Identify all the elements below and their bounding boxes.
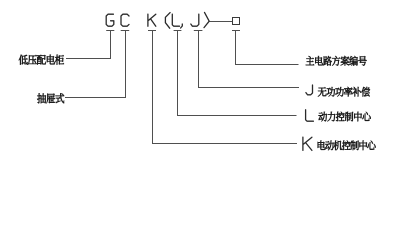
designator letter L: [306, 110, 314, 121]
tick under C: [121, 30, 130, 32]
label drawer type 抽屉式: [37, 93, 64, 103]
comma: [181, 24, 183, 28]
label reactive power compensation 无功功率补偿: [318, 87, 370, 97]
tick under L: [174, 30, 182, 32]
label motor control center 电动机控制中心: [318, 141, 376, 151]
wire leader C to label: [65, 31, 126, 98]
model letter L: [172, 14, 179, 26]
tick under K: [148, 30, 156, 32]
wire leader L to label: [178, 31, 297, 116]
model letter K: [148, 14, 156, 26]
designator letter J: [306, 85, 313, 95]
designator letter K: [303, 137, 312, 150]
wire dash to scheme number box: [210, 21, 233, 23]
tick under G: [106, 30, 114, 32]
model letter C: [121, 14, 129, 26]
label low-voltage distribution cabinet 低压配电柜: [19, 55, 64, 65]
label power control center 动力控制中心: [319, 112, 371, 122]
tick under J: [194, 30, 203, 32]
opening parenthesis: [165, 13, 170, 29]
model letter G: [106, 14, 114, 26]
GCK(L,J) low-voltage cabinet model designation diagram: [0, 0, 401, 167]
label main circuit scheme number 主电路方案编号: [306, 56, 367, 66]
wire leader J to label: [199, 31, 300, 88]
wire leader G to label: [66, 31, 111, 59]
scheme number box: [233, 18, 240, 25]
closing parenthesis: [204, 12, 209, 27]
tick under box: [232, 30, 240, 32]
wire leader K to label: [153, 31, 298, 144]
model letter J: [191, 14, 199, 26]
wire leader box to label: [236, 31, 299, 65]
